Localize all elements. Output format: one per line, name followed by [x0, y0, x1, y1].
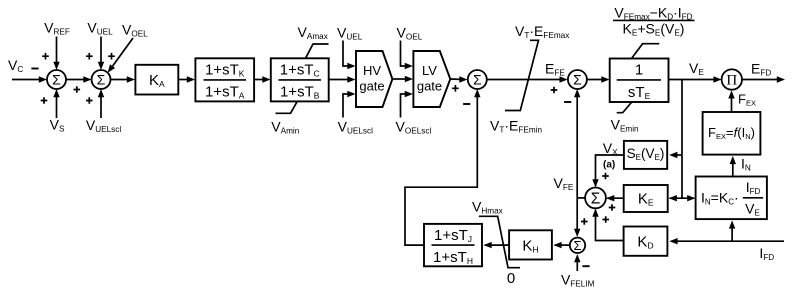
limit tick VAmax — [306, 44, 329, 58]
limiter diagonal on EFE — [505, 40, 539, 110]
wire KD output into S5 — [596, 210, 624, 241]
summing junction S2 — [92, 70, 111, 89]
svg-text:Σ: Σ — [573, 72, 582, 88]
wire KE output into S5 — [607, 197, 623, 199]
limiter diagonal on KH output — [479, 216, 520, 267]
svg-text:IFD: IFD — [759, 245, 774, 262]
svg-text:KE+SE(VE): KE+SE(VE) — [623, 21, 685, 38]
wire VREF into S1 — [56, 37, 58, 65]
sign minus VC at summer S1 — [31, 68, 38, 70]
multiplier PI — [722, 69, 742, 89]
svg-text:VE: VE — [689, 60, 704, 77]
wire VE branch down — [681, 80, 683, 199]
wire VFE down into S6 — [576, 198, 578, 231]
svg-text:Σ: Σ — [52, 72, 61, 88]
svg-text:VC: VC — [8, 57, 23, 74]
wire IN from IN-block to FEX block — [732, 162, 734, 176]
wire LV gate to summer S3 — [450, 78, 461, 80]
svg-text:VOEL: VOEL — [122, 22, 148, 39]
svg-text:gate: gate — [417, 79, 442, 94]
wire VOELscl into LV gate — [401, 94, 406, 118]
wire HV gate to LV gate — [392, 78, 407, 80]
limit tick VAmin — [276, 102, 298, 114]
wire VS into S1 — [56, 95, 58, 118]
svg-text:Σ: Σ — [591, 191, 601, 208]
sign plus VFE at S6 — [581, 218, 588, 225]
svg-text:IN: IN — [741, 156, 751, 173]
svg-text:Σ: Σ — [97, 72, 106, 88]
sign minus feedback at S3 — [463, 103, 470, 105]
sign plus KD at S5 — [602, 216, 609, 223]
wire VFE up into S4 — [576, 95, 578, 198]
sign plus S1 output at S2 — [74, 86, 81, 93]
integrator block 1/sTE — [610, 59, 669, 103]
HV gate block — [356, 51, 392, 107]
wire SE output into summer S5 — [596, 155, 624, 186]
summing junction S3 — [468, 70, 487, 89]
wire S5 output VFE — [577, 197, 585, 199]
washout block (1+sTJ)/(1+sTH) — [424, 224, 482, 266]
svg-text:VHmax: VHmax — [472, 198, 503, 215]
wire VUELscl into S2 — [100, 95, 102, 118]
wire VUEL into S2 — [100, 37, 102, 65]
sign plus VUELscl at S2 — [86, 97, 93, 104]
sign plus EFE at S4 — [551, 87, 558, 94]
wire TK/TA to TC/TB block — [254, 79, 264, 81]
svg-text:VFEmax−KD·IFD: VFEmax−KD·IFD — [614, 5, 692, 22]
gain block KH — [509, 230, 552, 259]
summing junction S6 — [570, 238, 585, 253]
sign plus VUEL at S2 — [86, 53, 93, 60]
wire E_FE from S3 to S4 — [487, 79, 562, 81]
wire VUELscl into HV gate — [343, 94, 348, 118]
svg-text:Π: Π — [726, 72, 737, 88]
wire IFD input — [671, 240, 784, 242]
svg-text:EFE: EFE — [545, 60, 565, 77]
svg-text:VFE: VFE — [553, 175, 573, 192]
sign plus VOEL at S2 — [108, 53, 115, 60]
svg-text:Σ: Σ — [473, 72, 482, 88]
sign plus KE at S5 — [609, 204, 616, 211]
svg-text:Σ: Σ — [573, 238, 581, 253]
svg-text:FEX: FEX — [738, 92, 756, 108]
gain block KD — [624, 227, 668, 256]
gain block KA — [135, 65, 178, 95]
svg-text:VUEL: VUEL — [87, 20, 113, 37]
wire KH output to TJ/TH block — [485, 244, 509, 246]
svg-text:VUEL: VUEL — [337, 25, 363, 42]
wire EFD output — [742, 79, 779, 81]
sign plus LV output at S3 — [452, 85, 459, 92]
wire VOEL into LV gate — [401, 41, 406, 67]
sign minus VFE at S4 — [564, 101, 571, 103]
limit tick upper integrator — [632, 44, 660, 59]
svg-text:VUELscl: VUELscl — [86, 117, 121, 134]
svg-text:VREF: VREF — [44, 20, 70, 37]
svg-text:VOELscl: VOELscl — [396, 119, 432, 136]
summing junction S5 — [585, 188, 606, 209]
svg-text:VAmin: VAmin — [271, 119, 299, 136]
summing junction S4 — [568, 70, 587, 89]
wire TC/TB to HV gate — [329, 79, 350, 81]
wire VUEL into HV gate — [343, 41, 348, 67]
wire VC input — [12, 79, 41, 81]
sign plus VS at S1 — [41, 97, 48, 104]
svg-text:0: 0 — [507, 270, 515, 287]
lead-lag block (1+sTC)/(1+sTB) — [271, 58, 329, 101]
wire VFELIM into S6 — [576, 260, 578, 271]
lead-lag block (1+sTK)/(1+sTA) — [195, 58, 254, 101]
svg-text:(a): (a) — [603, 160, 615, 171]
svg-text:VFELIM: VFELIM — [561, 272, 595, 289]
wire FEX into multiplier — [731, 96, 733, 111]
svg-text:LV: LV — [422, 63, 437, 78]
svg-text:VT·EFEmin: VT·EFEmin — [490, 118, 542, 135]
LV gate block — [413, 51, 450, 107]
wire IFD branch into IN block — [731, 226, 733, 241]
sign minus VFELIM at S6 — [582, 265, 589, 267]
wire VE from integrator to multiplier — [669, 79, 716, 81]
svg-text:gate: gate — [359, 79, 384, 94]
wire feedback TJ/TH output to S3 — [405, 91, 477, 245]
svg-text:VT·EFEmax: VT·EFEmax — [515, 23, 569, 40]
wire S1 to S2 — [66, 79, 86, 81]
wire VE into SE block — [672, 154, 683, 156]
svg-text:VUELscl: VUELscl — [338, 119, 373, 136]
saturation block SE(VE) — [624, 141, 667, 169]
limit tick VEmin — [617, 102, 632, 113]
sign plus SE at S5 — [602, 173, 609, 180]
wire S4 to integrator — [587, 79, 604, 81]
svg-text:VEmin: VEmin — [611, 117, 639, 134]
svg-text:VOEL: VOEL — [397, 25, 423, 42]
wire S2 to KA — [111, 79, 130, 81]
svg-text:EFD: EFD — [751, 61, 771, 78]
svg-text:HV: HV — [363, 63, 381, 78]
summing junction S1 — [47, 70, 66, 89]
sign plus VREF at S1 — [42, 53, 49, 60]
wire KA to TK/TA block — [178, 79, 189, 81]
svg-text:VS: VS — [50, 117, 65, 134]
function block IN=KC*IFD/VE — [696, 177, 767, 220]
svg-text:1+sTJ: 1+sTJ — [434, 227, 472, 244]
wire VE into KE and IN blocks — [670, 197, 695, 199]
wire VOEL diagonal into S2 — [111, 38, 133, 68]
wire S6 output into KH — [555, 244, 570, 246]
svg-text:VAmax: VAmax — [298, 24, 328, 41]
function block FEX=f(IN) — [703, 112, 761, 155]
svg-text:1: 1 — [635, 62, 643, 79]
gain block KE — [624, 185, 668, 212]
